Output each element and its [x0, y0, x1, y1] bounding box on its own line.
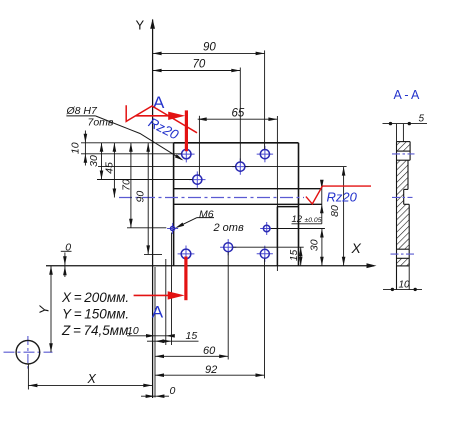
section outline [396, 142, 398, 290]
groove top line [174, 188, 322, 190]
svg-text:Rz20: Rz20 [327, 190, 358, 205]
zero marker Y datum [64, 253, 66, 278]
svg-text:Y: Y [36, 304, 51, 314]
dimension 80 (right) [98, 166, 236, 168]
Y axis [152, 20, 154, 399]
svg-text:X: X [351, 240, 362, 256]
X axis [46, 265, 374, 267]
svg-text:Ø8 H7: Ø8 H7 [66, 105, 99, 117]
dimension Y (machine offset) [50, 266, 52, 353]
hole H (Ø8) [257, 253, 273, 255]
section dimension 5 [383, 123, 428, 125]
part outline: right edge upper [298, 143, 300, 266]
svg-text:10: 10 [69, 142, 81, 154]
hole G (Ø8) [220, 246, 236, 248]
svg-text:15: 15 [289, 249, 300, 261]
hole M6 no.1 [167, 228, 178, 230]
dimension 15 (bottom) [147, 340, 199, 342]
part outline: top edge [174, 142, 299, 144]
section cut mark A (top): arrow [136, 115, 180, 117]
hole A (Ø8) [178, 153, 195, 155]
section hole centerlines (blue) [392, 153, 415, 155]
part outline: right edge lower [276, 207, 278, 266]
machine origin circle [4, 351, 53, 353]
svg-text:70: 70 [193, 59, 206, 71]
section cut mark A (bottom): arrow [134, 294, 180, 296]
svg-text:15: 15 [186, 330, 198, 342]
svg-text:0: 0 [170, 385, 176, 397]
svg-text:Y = 150мм.: Y = 150мм. [62, 307, 129, 322]
dimension 90 (left chain) [147, 143, 149, 255]
bottom extension lines [165, 259, 167, 345]
section dimension 10 [383, 288, 422, 290]
svg-text:5: 5 [419, 114, 425, 125]
hole F (Ø8) [178, 253, 195, 255]
zero marker X datum [141, 395, 169, 397]
svg-text:30: 30 [308, 239, 320, 251]
dimension 65 [198, 118, 278, 120]
svg-text:92: 92 [205, 364, 217, 376]
hole D (Ø8) [257, 153, 273, 155]
svg-text:X: X [87, 372, 97, 386]
left chain row extension lines [81, 142, 174, 144]
hole B (Ø8) [189, 179, 205, 181]
svg-text:60: 60 [203, 345, 216, 357]
svg-text:2 отв: 2 отв [213, 222, 244, 234]
svg-text:M6: M6 [199, 209, 214, 221]
svg-text:90: 90 [203, 42, 216, 54]
svg-text:30: 30 [88, 155, 100, 167]
groove bottom line [174, 203, 322, 205]
svg-text:80: 80 [329, 205, 341, 217]
dimension 10 (left chain) [84, 131, 86, 166]
section cut mark A (bottom): thick red line [184, 257, 187, 301]
section cut mark A (top): thick red line [185, 110, 188, 151]
datum extension line x=155 [154, 267, 156, 398]
dimension 70 (top) [153, 70, 241, 72]
svg-text:A - A: A - A [394, 88, 421, 102]
svg-text:A: A [152, 303, 164, 322]
svg-text:Y: Y [136, 18, 145, 33]
svg-text:0: 0 [65, 242, 71, 254]
dimension 30 (right) [271, 228, 325, 230]
roughness symbol (red, rotated large) [126, 105, 197, 133]
svg-text:10: 10 [399, 279, 411, 290]
part outline: left edge [173, 143, 175, 266]
dimension 60 (bottom) [155, 355, 228, 357]
dimension 70 (left chain) [130, 143, 132, 228]
dimension 12 ±0.05 (groove) [321, 181, 323, 224]
section body hatching [397, 142, 411, 152]
groove centerline (blue dash-dot) [119, 197, 304, 199]
dimension 90 (top) [153, 52, 265, 54]
dimension 45 (left chain) [113, 143, 115, 198]
svg-text:7отв: 7отв [88, 117, 114, 129]
hole C (Ø8) [232, 166, 248, 168]
dimension X (machine offset) [27, 364, 29, 390]
svg-text:X = 200мм.: X = 200мм. [61, 290, 129, 305]
svg-text:45: 45 [104, 162, 116, 174]
svg-text:Z = 74,5мм.: Z = 74,5мм. [61, 323, 132, 338]
dimension 30 (left chain) [101, 143, 103, 180]
svg-text:90: 90 [135, 191, 147, 203]
extension line x=277.4 (65 dim / step) [276, 116, 278, 271]
svg-text:65: 65 [232, 108, 245, 120]
dimension 92 (bottom) [155, 374, 265, 376]
dimension 15 (right) [233, 246, 304, 248]
hole M6 no.2 [260, 228, 273, 230]
svg-text:70: 70 [121, 179, 133, 191]
roughness symbol on groove (red) [306, 186, 323, 204]
part outline: step edge [277, 206, 298, 208]
